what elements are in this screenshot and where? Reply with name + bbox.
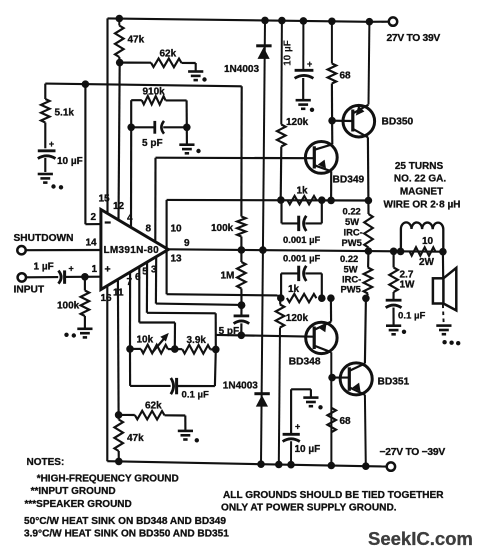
capacitor 1uF input [58, 271, 61, 284]
resistor 0.22 upper [367, 201, 369, 215]
resistor 1k upper [287, 196, 316, 205]
node BD350 emitter rail [366, 18, 374, 26]
svg-text:27V TO 39V: 27V TO 39V [387, 33, 441, 44]
svg-text:1 µF: 1 µF [34, 262, 54, 273]
diode 1N4003 lower [254, 392, 269, 395]
capacitor 5pF top [131, 126, 155, 128]
node rail 10uF bottom [287, 461, 295, 469]
wire cap to pin 1 [65, 276, 102, 278]
capacitor 0.001uF lower bracket [280, 273, 282, 298]
node 3.9k right [212, 346, 220, 354]
node 910k/5pF right [183, 124, 191, 132]
capacitor 0.1uF right [386, 299, 402, 302]
svg-text:IRC-: IRC- [344, 227, 363, 238]
svg-text:0.22: 0.22 [340, 253, 358, 264]
wire top rail stub to terminal [370, 21, 390, 23]
node 1k lower left [277, 294, 285, 302]
svg-text:WIRE OR 2·8 µH: WIRE OR 2·8 µH [384, 200, 461, 211]
node 120k upper rail [278, 17, 286, 25]
ground at 62k upper (HF ground) [188, 72, 203, 81]
resistor 62k lower [119, 414, 135, 416]
wire BD349 collector [331, 121, 333, 145]
svg-text:910k: 910k [143, 87, 166, 98]
svg-text:***SPEAKER GROUND: ***SPEAKER GROUND [25, 499, 132, 510]
svg-text:10k: 10k [137, 335, 154, 346]
capacitor 10uF top (electrolytic) [302, 21, 304, 70]
capacitor 5pF lower [238, 301, 246, 309]
svg-text:47k: 47k [128, 35, 145, 46]
minus sign inverting input [105, 221, 111, 223]
svg-text:10 µF: 10 µF [295, 444, 321, 455]
svg-text:2W: 2W [419, 257, 435, 268]
wire BD351 emitter down [364, 395, 367, 467]
resistor 120k lower [279, 298, 281, 305]
svg-text:0.1 µF: 0.1 µF [398, 311, 426, 322]
resistor 1M [240, 250, 242, 262]
wire pin 6 line [138, 267, 140, 322]
svg-text:47k: 47k [127, 433, 144, 444]
svg-text:1M: 1M [221, 271, 235, 282]
transistor BD349 (NPN) [305, 142, 337, 174]
node output/100k [238, 246, 246, 254]
node output/2.7 [390, 248, 398, 256]
ground at 910k box (HF ground) [179, 145, 194, 154]
node output/inductor-left [397, 248, 405, 256]
wire pin 5 line [146, 263, 148, 313]
resistor 2.7 1W [393, 251, 395, 267]
node 0.22 lower top / BD351 collector [362, 295, 370, 303]
svg-text:14: 14 [86, 238, 98, 249]
wire pin 3 line [155, 257, 157, 304]
svg-text:0.001 µF: 0.001 µF [283, 234, 320, 245]
node BD349 emitter / 1k line [327, 197, 335, 205]
wire BD351 base [332, 377, 349, 379]
svg-text:MAGNET: MAGNET [400, 187, 443, 198]
resistor 3.9k [182, 345, 210, 354]
node pot wiper/pin6 [171, 345, 179, 353]
svg-text:LM391N-80: LM391N-80 [104, 245, 160, 256]
resistor 120k upper [280, 21, 283, 125]
node BD349 collector / BD350 base [328, 117, 336, 125]
svg-text:100k: 100k [211, 223, 234, 234]
svg-text:+: + [69, 264, 74, 274]
svg-text:100k: 100k [57, 301, 80, 312]
terminal input [18, 273, 26, 281]
resistor 47k lower [118, 415, 120, 420]
wire pin 10 bracket [166, 200, 168, 294]
capacitor 0.1uF feedback loop [129, 349, 131, 386]
node top rail x119 [116, 15, 124, 23]
wire BD350 emitter column [368, 22, 371, 105]
svg-text:INPUT: INPUT [14, 285, 45, 296]
wire shutdown to pin 14 [26, 249, 102, 251]
wire top supply rail [108, 18, 370, 21]
svg-text:BD351: BD351 [378, 377, 410, 388]
wire 910k box right [186, 100, 188, 127]
svg-text:62k: 62k [160, 49, 177, 60]
wire BD348 collector down to rail [330, 352, 332, 465]
svg-text:ONLY AT POWER SUPPLY GROUND.: ONLY AT POWER SUPPLY GROUND. [221, 503, 397, 514]
speaker [433, 278, 444, 303]
svg-text:15: 15 [99, 194, 111, 205]
ground below input 100k [77, 329, 92, 338]
svg-text:68: 68 [340, 71, 352, 82]
svg-text:−27V TO −39V: −27V TO −39V [380, 447, 446, 458]
node 68 bottom rail [328, 462, 336, 470]
wire bias line y84 [45, 84, 241, 87]
wire to ground from 910k box [186, 127, 188, 143]
ground below 0.1uF right [386, 326, 401, 335]
svg-text:ALL GROUNDS SHOULD BE TIED TOG: ALL GROUNDS SHOULD BE TIED TOGETHER [223, 490, 444, 501]
wire BD348 emitter up [330, 298, 332, 321]
resistor 10 ohm [410, 247, 436, 256]
node input/100k [81, 273, 89, 281]
wire mid column from y86 [240, 86, 242, 200]
node BD348 emitter / 1k line [327, 294, 335, 302]
transistor BD348 (PNP) [306, 322, 337, 353]
capacitor 10uF left (electrolytic) [38, 149, 56, 152]
svg-text:3.9k: 3.9k [187, 335, 207, 346]
node BD351 base [328, 374, 336, 382]
resistor 0.22 lower [367, 251, 369, 267]
svg-text:NOTES:: NOTES: [27, 457, 65, 468]
svg-text:BD350: BD350 [382, 117, 414, 128]
svg-text:8: 8 [146, 224, 152, 235]
node 120k bottom rail [275, 461, 283, 469]
terminal -V supply [387, 462, 395, 470]
wire pin 16 column [106, 286, 108, 462]
svg-text:13: 13 [171, 254, 183, 265]
node diode bottom rail [257, 460, 265, 468]
op-amp U1 LM391N-80 [101, 210, 168, 290]
svg-text:12: 12 [113, 201, 125, 212]
svg-text:62k: 62k [145, 401, 162, 412]
wire 5pF line to BD348 base [216, 335, 314, 337]
transistor BD350 (PNP) [343, 105, 375, 137]
node 5pF bottom [238, 332, 246, 340]
svg-text:+: + [105, 264, 111, 276]
node pin11/62k lower [115, 411, 123, 419]
ground 10uF bottom [303, 398, 318, 407]
svg-text:50°C/W HEAT SINK ON BD348 AND: 50°C/W HEAT SINK ON BD348 AND BD349 [24, 516, 226, 527]
resistor 100k input [84, 277, 86, 291]
node 1k/bracket upper right [318, 196, 326, 204]
svg-text:68: 68 [340, 416, 352, 427]
svg-text:0.22: 0.22 [343, 206, 361, 217]
svg-text:SeekIC.com: SeekIC.com [368, 528, 473, 549]
node 47k/62k junction [116, 59, 124, 67]
svg-text:PW5: PW5 [341, 284, 361, 295]
wire pin 8 to BD349 base [154, 158, 156, 242]
node bias/pin2 [82, 80, 90, 88]
svg-text:1: 1 [92, 264, 98, 275]
node 0.22/output [365, 247, 373, 255]
resistor 68 lower [327, 408, 336, 432]
svg-text:0.1 µF: 0.1 µF [182, 390, 210, 401]
node BD351 emitter rail [362, 462, 370, 470]
node output/inductor-right [439, 248, 447, 256]
svg-text:10: 10 [422, 236, 434, 247]
wire pin 13 line [167, 294, 278, 295]
wiper arrow [152, 338, 165, 354]
node rail 47k [115, 458, 123, 466]
terminal shutdown [17, 246, 25, 254]
node 910k/5pF left [127, 124, 135, 132]
svg-text:**INPUT GROUND: **INPUT GROUND [31, 486, 116, 497]
svg-text:1W: 1W [400, 280, 416, 291]
node 1k lower right bracket [318, 294, 326, 302]
resistor 100k mid [240, 200, 242, 217]
ground below 62k lower [178, 431, 193, 440]
svg-text:NO. 22 GA.: NO. 22 GA. [394, 174, 446, 185]
svg-text:5 pF: 5 pF [142, 138, 163, 149]
wire BD351 collector up [365, 298, 366, 363]
svg-text:0.001 µF: 0.001 µF [283, 253, 320, 264]
capacitor 0.001uF upper bracket [280, 200, 282, 223]
node 10uF top rail [300, 17, 308, 25]
svg-text:+: + [307, 59, 312, 69]
ground speaker (speaker ground) [436, 326, 451, 335]
wire left column to pin 15 [106, 18, 108, 213]
diode 1N4003 upper [256, 44, 271, 47]
svg-text:+: + [295, 422, 300, 432]
wire BD350 base [332, 120, 353, 122]
wire output from pin 9 [168, 249, 443, 251]
capacitor 10uF bottom (electrolytic) [290, 441, 292, 465]
resistor 62k upper [120, 62, 151, 64]
resistor 910k [131, 99, 142, 101]
resistor 68 upper [331, 21, 333, 63]
wire BD349 emitter [330, 171, 332, 200]
wire diode column [261, 20, 265, 464]
svg-text:5W: 5W [345, 216, 359, 227]
svg-text:1k: 1k [297, 186, 309, 197]
ground below 10uF top [296, 100, 311, 109]
inductor 25-turn coil [401, 222, 443, 251]
svg-text:10 µF: 10 µF [57, 156, 83, 167]
resistor 5.1k [44, 84, 46, 99]
svg-text:BD349: BD349 [333, 175, 365, 186]
node 1M/5pF/pin5 [238, 301, 246, 309]
wire speaker feed [442, 252, 444, 279]
svg-text:120k: 120k [286, 313, 309, 324]
svg-text:10 µF: 10 µF [283, 40, 294, 66]
svg-text:25 TURNS: 25 TURNS [395, 161, 444, 172]
svg-text:SHUTDOWN: SHUTDOWN [14, 233, 74, 244]
svg-text:5.1k: 5.1k [55, 108, 75, 119]
wire pin 2 column [84, 84, 86, 224]
node 120k/1k upper [277, 196, 285, 204]
wire input to cap [26, 276, 58, 278]
svg-text:9: 9 [184, 238, 190, 249]
svg-text:120k: 120k [286, 117, 309, 128]
wire pin 7 column [129, 272, 131, 349]
svg-text:1k: 1k [288, 284, 300, 295]
ground below 10uF left (input ground) [38, 174, 53, 183]
svg-text:PW5: PW5 [342, 237, 362, 248]
svg-text:10: 10 [171, 224, 183, 235]
terminal +V supply [389, 17, 397, 25]
wire 910k box left [130, 100, 132, 127]
svg-text:1N4003: 1N4003 [223, 381, 258, 392]
wire BD350 collector column [367, 137, 370, 200]
wire pin 11 column [117, 279, 120, 415]
wire bottom supply rail [107, 461, 366, 466]
svg-text:2: 2 [91, 212, 97, 223]
resistor 1k lower [287, 294, 317, 302]
svg-text:BD348: BD348 [289, 357, 321, 368]
svg-text:*HIGH-FREQUENCY GROUND: *HIGH-FREQUENCY GROUND [37, 474, 179, 485]
wire pin 4 column [130, 127, 132, 227]
wire speaker ground dashed [442, 305, 445, 323]
node 68 upper rail [328, 18, 336, 26]
resistor 47k upper [118, 19, 120, 26]
transistor BD351 (NPN) [340, 363, 372, 395]
svg-text:1N4003: 1N4003 [224, 64, 259, 75]
wire pin 12 from 47k/62k node [119, 63, 120, 220]
node diode/output [259, 246, 267, 254]
node diode top rail [261, 17, 269, 25]
node 0.22 upper top [365, 197, 373, 205]
svg-text:3.9°C/W HEAT SINK ON BD350 AND: 3.9°C/W HEAT SINK ON BD350 AND BD351 [24, 529, 229, 540]
pot 10k with wiper arrow [126, 345, 134, 353]
svg-text:+: + [49, 139, 54, 149]
